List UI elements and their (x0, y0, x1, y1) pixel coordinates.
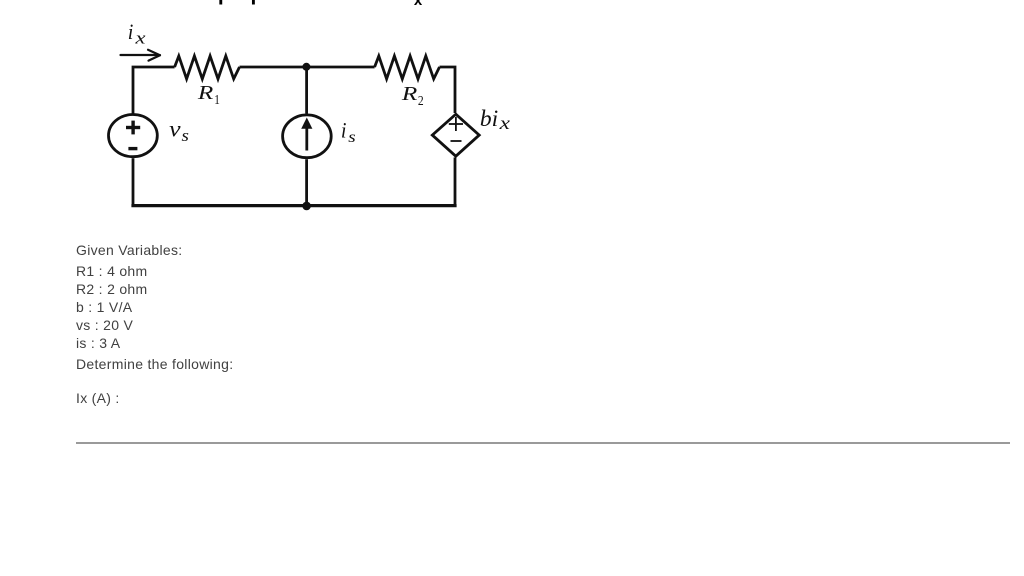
label R1 (197, 83, 220, 108)
label bix (480, 106, 510, 133)
text: vs value (76, 318, 133, 332)
ix current direction arrow (121, 50, 161, 61)
wire: top-right horizontal + right vertical down to dependent source (440, 67, 456, 113)
vs polarity plus (126, 121, 140, 135)
dependent source polarity minus (451, 140, 462, 142)
divider line (76, 442, 1010, 443)
wire: bottom rail (133, 204, 455, 206)
current source is (circle with up arrow) (283, 115, 332, 158)
node label ix (current label) (128, 19, 146, 48)
text: b value (76, 300, 132, 314)
wire: middle vertical bottom (is to bottom rail) (305, 159, 308, 205)
wire: left vertical top segment + top-left horizontal to R1 (133, 67, 175, 114)
voltage source vs (independent, circle with +/-) (108, 115, 157, 157)
wire: right vertical bottom (bix to bottom rail) (454, 157, 457, 205)
svg-text:i: i (128, 19, 134, 44)
svg-text:2: 2 (418, 94, 424, 109)
svg-text:x: x (134, 29, 146, 48)
text: Determine the following (76, 357, 233, 371)
dependent source bix (diamond) (432, 114, 479, 156)
text: Given Variables heading (76, 243, 182, 257)
svg-text:R: R (197, 83, 214, 104)
svg-text:x: x (498, 113, 510, 133)
text: R2 value (76, 282, 147, 296)
node A (top junction dot) (302, 63, 310, 71)
vs polarity minus (128, 147, 137, 150)
title text (cut off at top of page): "Use superposition to find ix." (149, 0, 428, 11)
text: Ix answer prompt (76, 391, 120, 405)
svg-text:s: s (182, 126, 190, 145)
svg-text:s: s (348, 129, 355, 146)
resistor R2 (375, 56, 440, 79)
svg-text:R: R (401, 84, 418, 105)
node B (bottom junction dot) (302, 202, 311, 211)
wire: left vertical bottom (vs to bottom rail) (132, 158, 135, 205)
is source arrow (301, 118, 312, 151)
svg-text:bi: bi (480, 106, 498, 131)
text: is value (76, 336, 120, 350)
label is (341, 118, 356, 147)
svg-text:v: v (169, 117, 181, 142)
wire: top middle segment (R1 to R2) through node (240, 66, 375, 69)
resistor R1 (175, 56, 240, 79)
svg-text:i: i (341, 118, 347, 143)
wire: middle vertical from node A to current source (305, 67, 308, 114)
label R2 (401, 84, 424, 109)
text: R1 value (76, 264, 147, 278)
svg-text:1: 1 (214, 93, 220, 108)
dependent source polarity plus (449, 117, 463, 131)
label vs (169, 117, 189, 145)
